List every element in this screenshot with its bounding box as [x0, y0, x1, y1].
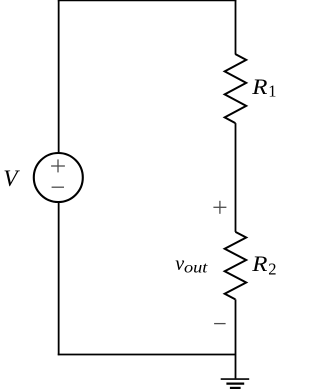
node + label (top of R2) — [213, 201, 226, 214]
voltage source minus sign — [52, 186, 64, 188]
svg-text:v: v — [175, 253, 184, 275]
voltage source plus sign — [51, 159, 65, 172]
wire left vertical top (source top to top-left corner) — [58, 0, 60, 153]
wire top horizontal — [58, 0, 237, 1]
svg-text:R: R — [251, 74, 268, 99]
resistor R2 — [225, 232, 247, 300]
wire between R1 and R2 — [235, 123, 237, 232]
svg-text:R: R — [251, 251, 268, 276]
svg-text:V: V — [3, 166, 20, 192]
voltage source V circle — [34, 153, 83, 202]
svg-text:out: out — [184, 260, 208, 277]
wire right vertical top (top-right corner to R1) — [235, 0, 237, 54]
svg-text:2: 2 — [268, 260, 276, 279]
wire left vertical bottom (source bottom to bottom-left corner) — [58, 202, 60, 355]
wire bottom horizontal — [58, 354, 236, 356]
svg-text:1: 1 — [268, 82, 276, 101]
node - label (bottom of R2) — [214, 323, 226, 325]
ground symbol — [221, 379, 250, 388]
resistor R1 — [225, 54, 247, 123]
wire below R2 to ground — [235, 299, 237, 378]
